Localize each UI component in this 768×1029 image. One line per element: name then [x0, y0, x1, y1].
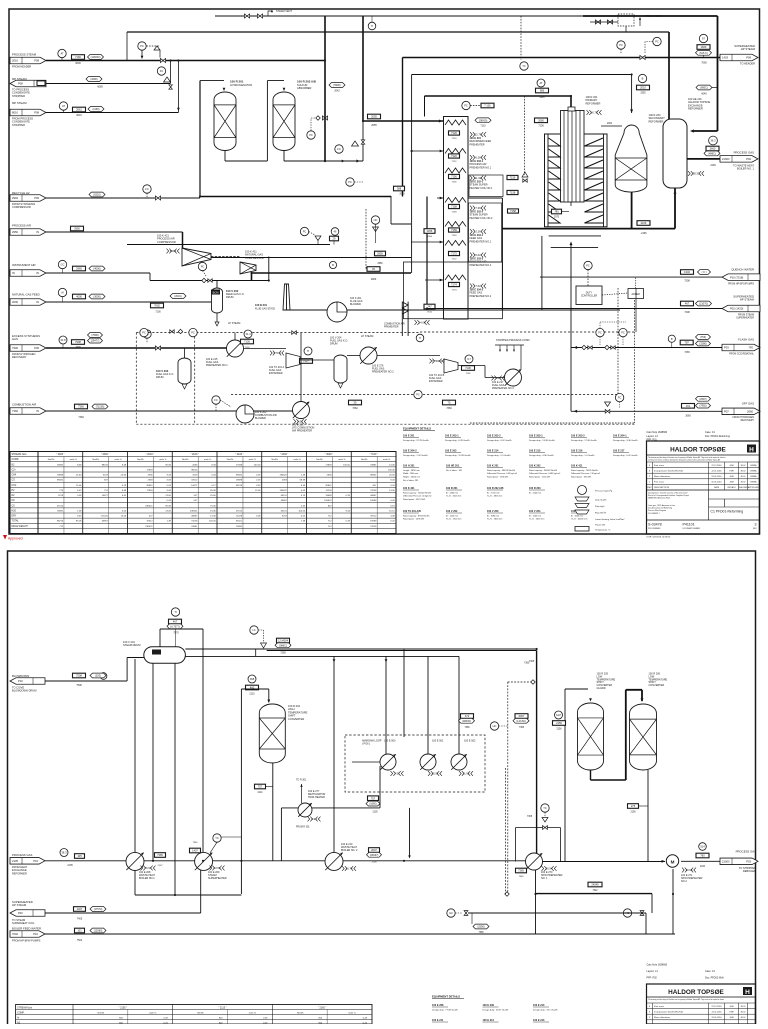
svg-text:2160: 2160	[700, 866, 706, 868]
svg-text:HP STEAM: HP STEAM	[741, 47, 756, 51]
svg-text:985: 985	[540, 89, 545, 93]
svg-text:7174: 7174	[452, 290, 458, 292]
svg-text:FLUE GAS STACK: FLUE GAS STACK	[255, 307, 276, 310]
flue duct long vertical	[570, 310, 572, 411]
svg-text:BLOWDOWN DRUM: BLOWDOWN DRUM	[12, 689, 36, 693]
svg-text:" 2160 ": " 2160 "	[190, 453, 198, 456]
shaft line compressors	[211, 256, 240, 258]
svg-text:2060: 2060	[538, 119, 544, 123]
hydrogenator feed line	[200, 80, 224, 82]
svg-text:P10: P10	[33, 932, 38, 936]
svg-text:7362: 7362	[352, 407, 358, 410]
svg-text:43867: 43867	[191, 516, 198, 518]
svg-text:2950: 2950	[12, 230, 18, 234]
BFW risers	[535, 870, 537, 934]
svg-text:74891: 74891	[57, 464, 64, 466]
feed riser x200	[199, 81, 201, 197]
svg-text:FC: FC	[214, 398, 218, 402]
svg-text:1660: 1660	[701, 45, 707, 49]
HE201 top feed thick line	[717, 16, 719, 131]
svg-text:COMP.: COMP.	[12, 459, 20, 461]
TC E209	[213, 834, 221, 842]
svg-text:37012: 37012	[370, 516, 377, 518]
svg-text:7502: 7502	[77, 939, 83, 942]
svg-text:Length : 38/50 mm: Length : 38/50 mm	[403, 469, 420, 472]
svg-text:2956: 2956	[377, 263, 383, 265]
svg-text:2166: 2166	[641, 221, 647, 225]
tee to E500	[385, 659, 388, 662]
svg-text:98216: 98216	[57, 521, 64, 523]
svg-text:16.12: 16.12	[389, 510, 395, 512]
svg-text:7136: 7136	[466, 373, 472, 375]
svg-text:14677: 14677	[191, 485, 198, 487]
svg-text:DRUM: DRUM	[156, 376, 164, 379]
master dashed signal line	[231, 394, 618, 396]
svg-text:7122: 7122	[451, 154, 457, 158]
svg-text:7570: 7570	[173, 632, 179, 635]
svg-text:100 E 203-2: 100 E 203-2	[571, 435, 585, 438]
svg-text:785: 785	[554, 210, 559, 214]
svg-text:FC: FC	[145, 187, 149, 191]
svg-text:Minor alterations: Minor alterations	[654, 475, 671, 478]
svg-text:EQUIPMENT DETAILS: EQUIPMENT DETAILS	[403, 427, 431, 431]
svg-text:100.00: 100.00	[388, 469, 395, 471]
HC stations on steam line	[447, 909, 455, 917]
svg-text:7122: 7122	[452, 161, 458, 163]
svg-text:ABSORBER: ABSORBER	[297, 86, 312, 90]
svg-text:38.3: 38.3	[61, 851, 67, 855]
svg-text:Rated power : 1936 kW: Rated power : 1936 kW	[487, 476, 508, 479]
svg-text:S-03478: S-03478	[648, 523, 662, 527]
svg-text:1407: 1407	[77, 907, 83, 911]
svg-text:HEATER COIL NO.1: HEATER COIL NO.1	[470, 187, 494, 190]
FC recycle H2	[143, 185, 151, 193]
reformer tubes	[561, 111, 585, 203]
svg-text:74891: 74891	[236, 526, 243, 528]
svg-text:7158: 7158	[452, 212, 458, 214]
svg-text:25.60: 25.60	[389, 475, 395, 477]
svg-text:100 E 208: 100 E 208	[432, 1004, 444, 1007]
instr 97 steam	[699, 34, 707, 42]
svg-text:Design duty : 22.78 Gcal/h: Design duty : 22.78 Gcal/h	[403, 439, 430, 442]
svg-text:P41101: P41101	[683, 523, 695, 527]
svg-text:PC: PC	[140, 44, 144, 48]
svg-text:37012: 37012	[57, 505, 64, 507]
steam vent assembly right	[595, 20, 600, 24]
svg-text:" 7160 ": " 7160 "	[369, 453, 377, 456]
svg-text:TOTAL: TOTAL	[12, 520, 20, 523]
svg-text:Rated capacity : 343087 Nm3: Rated capacity : 343087 Nm3/h	[529, 469, 557, 472]
process steam downleg V1	[324, 16, 326, 161]
svg-text:TRIM-HEATER: TRIM-HEATER	[308, 796, 325, 799]
radiant hatching	[549, 138, 561, 146]
svg-text:74228: 74228	[191, 521, 198, 523]
svg-text:Layout: L4: Layout: L4	[647, 970, 659, 973]
junction vertical x127	[141, 56, 144, 59]
svg-text:Desulfurization and Reforming: Desulfurization and Reforming	[648, 507, 672, 510]
svg-text:HC: HC	[449, 911, 453, 915]
svg-text:BWRA: BWRA	[751, 475, 758, 478]
svg-text:13.06: 13.06	[210, 516, 216, 518]
radiant box primary reformer	[545, 134, 608, 227]
svg-text:7002: 7002	[154, 304, 160, 308]
svg-text:INSTRUMENT AIR: INSTRUMENT AIR	[12, 263, 36, 267]
crossover thick to reformer tubes	[425, 95, 572, 97]
svg-text:TL-TL : 60000 mm: TL-TL : 60000 mm	[571, 519, 588, 521]
svg-text:Rachel of Correspondent Fertil: Rachel of Correspondent Fertilizer Compl…	[648, 494, 690, 497]
svg-text:7456: 7456	[427, 236, 433, 238]
title block page1	[647, 441, 760, 534]
svg-text:CONVERTER: CONVERTER	[288, 717, 304, 721]
svg-text:472: 472	[465, 714, 470, 718]
svg-text:CHECKED: CHECKED	[738, 487, 748, 489]
instr 514	[699, 843, 707, 851]
svg-text:2061: 2061	[76, 108, 82, 112]
svg-text:TC: TC	[543, 806, 547, 810]
svg-text:PREHEATER NO.1: PREHEATER NO.1	[470, 240, 492, 243]
svg-text:TI: TI	[419, 336, 422, 340]
R204 outlet	[272, 763, 274, 861]
svg-text:mole %: mole %	[114, 459, 121, 461]
svg-text:7160: 7160	[75, 55, 81, 59]
svg-text:6010: 6010	[76, 114, 82, 117]
svg-text:HC: HC	[493, 724, 497, 728]
svg-text:Lower Heating Value kcal/Nm³: Lower Heating Value kcal/Nm³	[595, 518, 625, 521]
svg-text:DOCUMENT NUMBER: DOCUMENT NUMBER	[683, 528, 701, 530]
R201 outlet piping	[224, 151, 226, 162]
blowdown from drum	[127, 657, 144, 659]
svg-text:2950: 2950	[74, 227, 80, 231]
svg-text:Case: C1: Case: C1	[705, 431, 716, 434]
drum steam line right	[185, 655, 459, 657]
svg-text:RECOVERY: RECOVERY	[12, 355, 27, 359]
svg-text:P06: P06	[34, 346, 39, 350]
svg-text:100 B 201: 100 B 201	[255, 303, 268, 307]
svg-text:275: 275	[631, 804, 636, 808]
svg-text:PFP: P02: PFP: P02	[647, 977, 658, 980]
hx 100 E 500	[380, 754, 396, 770]
svg-text:2007: 2007	[371, 848, 377, 852]
steam coil takeoff box 1	[469, 175, 503, 197]
svg-text:74891: 74891	[370, 464, 377, 466]
svg-text:P01: P01	[33, 859, 38, 863]
svg-text:2064: 2064	[607, 123, 613, 125]
svg-text:7120: 7120	[451, 131, 457, 135]
svg-text:(21070): (21070)	[699, 303, 708, 306]
svg-text:22.12.2016: 22.12.2016	[711, 1006, 722, 1008]
svg-text:Rated power : 2496 kW: Rated power : 2496 kW	[403, 518, 424, 521]
svg-text:NLIU: NLIU	[741, 1011, 746, 1013]
svg-text:19689: 19689	[57, 475, 64, 477]
svg-text:Nm3/h: Nm3/h	[227, 459, 234, 461]
svg-text:3219: 3219	[192, 475, 198, 477]
svg-text:P02: P02	[746, 157, 751, 161]
svg-text:NLIU: NLIU	[741, 1017, 746, 1019]
svg-text:(29477): (29477)	[91, 340, 100, 343]
instr AT mixed feed top	[537, 79, 545, 87]
svg-text:AT: AT	[60, 52, 64, 56]
svg-text:PREHEATER NO.3: PREHEATER NO.3	[492, 387, 514, 390]
svg-text:B: B	[671, 337, 673, 341]
svg-text:NLIU: NLIU	[741, 470, 746, 472]
svg-text:DRUM: DRUM	[330, 343, 338, 346]
svg-text:REV: REV	[647, 487, 652, 489]
svg-text:TC: TC	[215, 836, 219, 840]
hexagon 28000 flue	[475, 118, 491, 123]
red approved stamp	[3, 535, 7, 540]
svg-text:TL-TL : 1800 mm: TL-TL : 1800 mm	[487, 519, 503, 521]
svg-text:LC: LC	[252, 628, 255, 632]
svg-text:74228: 74228	[236, 516, 243, 518]
svg-text:-2166: -2166	[640, 232, 647, 235]
svg-text:95841: 95841	[57, 480, 64, 482]
HE-201 top feed vertical	[668, 32, 670, 119]
svg-text:FC: FC	[337, 147, 341, 151]
fuel gas package dashed boundary	[135, 333, 137, 425]
svg-text:PC: PC	[621, 331, 625, 335]
svg-text:7365: 7365	[280, 652, 286, 655]
svg-text:17949: 17949	[146, 469, 153, 471]
svg-text:13.06: 13.06	[121, 516, 127, 518]
svg-text:7159: 7159	[452, 235, 458, 237]
svg-text:7308: 7308	[684, 280, 690, 283]
svg-text:7172: 7172	[452, 259, 458, 261]
svg-text:22.12.2016: 22.12.2016	[711, 465, 722, 467]
stream PROCESS GAS outlet	[687, 158, 720, 160]
steam coil takeoff box 2	[469, 203, 502, 262]
dashed LC to valve	[508, 681, 531, 683]
svg-text:100 E 203-1: 100 E 203-1	[445, 435, 459, 438]
svg-text:(3286): (3286)	[699, 343, 706, 346]
steam line right segment	[468, 912, 646, 914]
svg-text:IN: IN	[12, 271, 15, 275]
hx 100 E 277 methanator trim heater	[281, 807, 380, 809]
svg-text:100 V 202: 100 V 202	[446, 510, 458, 513]
svg-text:(7992): (7992)	[699, 405, 706, 408]
svg-text:17949: 17949	[146, 490, 153, 492]
svg-text:6007: 6007	[519, 714, 525, 718]
svg-text:7159: 7159	[451, 228, 457, 232]
svg-text:17949: 17949	[325, 464, 332, 466]
svg-text:05.01.2016: 05.01.2016	[711, 482, 722, 484]
svg-text:Flow Nm³/h: Flow Nm³/h	[595, 512, 607, 515]
svg-text:Rated power : 1545 kW: Rated power : 1545 kW	[529, 476, 550, 479]
hexagon 5990 steam	[329, 83, 345, 88]
svg-text:STRIPPED PROCESS COND.: STRIPPED PROCESS COND.	[496, 339, 530, 342]
svg-text:7158: 7158	[451, 205, 457, 209]
combustion air coil exit duct	[401, 302, 403, 336]
svg-text:STREAM No/s: STREAM No/s	[17, 1006, 33, 1009]
svg-text:Design duty : 0.96 Gcal/h: Design duty : 0.96 Gcal/h	[529, 454, 554, 457]
svg-text:No. of tubes: 282: No. of tubes: 282	[403, 479, 419, 482]
svg-text:EQUIPMENT DETAILS: EQUIPMENT DETAILS	[432, 995, 460, 999]
svg-text:JGM: JGM	[729, 476, 734, 478]
svg-text:" 2400 ": " 2400 "	[280, 453, 288, 456]
svg-text:100 V 204: 100 V 204	[529, 510, 541, 513]
valve on steam line	[160, 58, 165, 62]
svg-text:95841: 95841	[236, 475, 243, 477]
svg-text:Design duty : 0.52 Gcal/h: Design duty : 0.52 Gcal/h	[487, 439, 512, 442]
air coil duct box	[404, 262, 503, 319]
svg-text:12 M004: 12 M004	[278, 639, 289, 643]
svg-text:7360: 7360	[446, 407, 452, 410]
svg-text:(4000): (4000)	[93, 268, 100, 271]
svg-text:P10 (7318): P10 (7318)	[730, 275, 743, 279]
svg-text:P06: P06	[34, 196, 39, 200]
svg-text:7408: 7408	[684, 311, 690, 314]
svg-text:17949: 17949	[236, 464, 243, 466]
svg-text:PROCESS AIR: PROCESS AIR	[12, 224, 31, 228]
tee to E210	[333, 659, 336, 662]
svg-text:P08: P08	[18, 82, 23, 86]
svg-text:Nm3/h: Nm3/h	[182, 459, 189, 461]
svg-text:100 R 202 A/B: 100 R 202 A/B	[297, 80, 316, 84]
svg-text:7360: 7360	[12, 409, 18, 413]
svg-text:98216: 98216	[191, 469, 198, 471]
svg-text:PREHEATER NO.1: PREHEATER NO.1	[470, 166, 492, 169]
svg-text:DATE: DATE	[714, 486, 720, 489]
svg-text:43867: 43867	[370, 495, 377, 497]
svg-text:100 E 215: 100 E 215	[529, 450, 541, 453]
flue gas stack 100 B 201	[283, 284, 290, 310]
svg-text:" 2160 ": " 2160 "	[318, 1006, 326, 1009]
svg-text:98216: 98216	[102, 464, 109, 466]
feed gas out to HE bottom	[468, 197, 502, 199]
flue gas duct	[287, 309, 328, 311]
svg-text:2636: 2636	[192, 464, 198, 466]
svg-text:DOCUMENT #: DOCUMENT #	[648, 513, 660, 515]
svg-text:P02 (1420): P02 (1420)	[730, 307, 743, 311]
svg-text:2902: 2902	[12, 196, 18, 200]
svg-text:NLIU: NLIU	[741, 1006, 746, 1008]
NG feed line to drum	[151, 303, 164, 308]
svg-text:PC: PC	[598, 331, 602, 335]
svg-text:mole %: mole %	[249, 459, 256, 461]
svg-text:P07: P07	[724, 410, 729, 414]
svg-text:194622: 194622	[324, 500, 332, 502]
svg-text:AT: AT	[62, 104, 66, 108]
svg-text:7.36: 7.36	[475, 206, 481, 210]
svg-text:B: B	[332, 263, 334, 267]
svg-text:TI: TI	[307, 349, 310, 353]
svg-text:(1160): (1160)	[92, 108, 99, 111]
svg-text:(5990): (5990)	[333, 84, 340, 87]
R204 inlet line	[241, 688, 268, 690]
svg-text:Nm3/h: Nm3/h	[98, 1012, 105, 1014]
svg-text:Differential Pressure: 40 kg/c: Differential Pressure: 40 kg/cm2	[403, 495, 432, 498]
svg-text:22.11.2016: 22.11.2016	[712, 1011, 723, 1013]
instr 368 R204 inlet	[248, 675, 256, 683]
svg-text:7126: 7126	[244, 340, 250, 344]
svg-text:43867: 43867	[102, 521, 109, 523]
svg-text:NO.2: NO.2	[681, 880, 687, 883]
svg-text:2105: 2105	[372, 812, 378, 814]
svg-text:JGM: JGM	[729, 1006, 734, 1008]
svg-text:TI: TI	[371, 24, 374, 28]
flue duct verticals	[541, 236, 543, 310]
svg-text:236321: 236321	[145, 526, 153, 528]
svg-text:100 E 501: 100 E 501	[432, 740, 444, 743]
svg-text:22.11.2016: 22.11.2016	[712, 470, 723, 472]
svg-text:31.8: 31.8	[60, 338, 66, 342]
adder dashed vertical	[634, 300, 636, 423]
svg-text:100 E 216: 100 E 216	[571, 450, 583, 453]
svg-text:757: 757	[371, 796, 376, 800]
instr 31.4 and label	[244, 330, 252, 338]
svg-text:BOILER NO. 2: BOILER NO. 2	[341, 849, 358, 852]
PC top left steam	[138, 42, 146, 50]
svg-text:7365: 7365	[193, 842, 199, 844]
svg-text:7908: 7908	[75, 347, 81, 349]
svg-text:(7596): (7596)	[91, 334, 98, 337]
svg-text:BOILER NO.1: BOILER NO.1	[139, 877, 155, 880]
svg-text:P08: P08	[34, 111, 39, 115]
svg-text:BWRA: BWRA	[751, 464, 758, 467]
svg-text:7156: 7156	[510, 176, 516, 180]
svg-text:11.32: 11.32	[475, 176, 482, 180]
svg-text:100 HE 201: 100 HE 201	[446, 465, 460, 468]
svg-text:NLIU: NLIU	[741, 476, 746, 478]
svg-text:AI: AI	[61, 291, 64, 295]
svg-text:19689: 19689	[236, 480, 243, 482]
svg-text:100 E 204-1: 100 E 204-1	[613, 435, 627, 438]
svg-text:FLASH GAS: FLASH GAS	[738, 338, 754, 342]
svg-text:ID : 3500 mm: ID : 3500 mm	[571, 515, 583, 517]
svg-text:7405: 7405	[77, 918, 83, 921]
svg-text:2055: 2055	[640, 93, 646, 95]
svg-text:(515 C): (515 C)	[699, 52, 708, 55]
svg-text:7110: 7110	[480, 125, 486, 128]
svg-text:Design duty : 17.36 Gcal/h: Design duty : 17.36 Gcal/h	[571, 439, 598, 442]
PC duty and controller	[584, 261, 592, 269]
svg-text:7365: 7365	[519, 876, 525, 878]
svg-text:HP STEAM: HP STEAM	[12, 903, 27, 907]
svg-text:P03: P03	[724, 346, 729, 350]
svg-text:RECOVERY: RECOVERY	[741, 419, 755, 422]
hexagon 690C	[696, 85, 712, 90]
svg-text:101: 101	[77, 929, 82, 933]
svg-text:95.08: 95.08	[76, 521, 82, 523]
svg-text:Pressure kg/cm²g: Pressure kg/cm²g	[595, 490, 613, 493]
R205 to R206 transfer	[590, 770, 592, 780]
R203 quench line	[601, 125, 622, 127]
svg-text:14677: 14677	[102, 495, 109, 497]
svg-text:2075: 2075	[554, 217, 560, 219]
svg-text:100 E 211: 100 E 211	[432, 1019, 444, 1022]
svg-text:BCM: BCM	[213, 290, 219, 294]
svg-text:7508: 7508	[76, 684, 82, 687]
svg-text:" 2105 ": " 2105 "	[119, 1006, 127, 1009]
drum downcomers	[134, 659, 136, 852]
svg-text:STEAM VENT: STEAM VENT	[276, 10, 292, 13]
svg-text:STRIPPER: STRIPPER	[12, 94, 25, 98]
hx 100 E 501	[420, 754, 436, 770]
svg-text:STEAM VENT: STEAM VENT	[645, 15, 661, 18]
svg-text:2383: 2383	[282, 480, 288, 482]
steam vent assembly left	[244, 14, 249, 18]
svg-text:" 3600 ": " 3600 "	[325, 453, 333, 456]
svg-text:First issue: First issue	[654, 481, 665, 484]
svg-text:43867: 43867	[281, 500, 288, 502]
svg-text:(116000): (116000)	[91, 56, 101, 59]
svg-text:Rated capacity : 87/56 Nm3/h: Rated capacity : 87/56 Nm3/h	[403, 514, 429, 517]
svg-text:(48000): (48000)	[462, 720, 471, 723]
svg-text:Design duty : 77.08 Gcal/h: Design duty : 77.08 Gcal/h	[432, 1009, 459, 1012]
svg-text:Nm3/h: Nm3/h	[361, 459, 368, 461]
svg-text:PC: PC	[142, 331, 146, 335]
svg-text:SUPERHEATER: SUPERHEATER	[736, 317, 754, 320]
svg-text:3219: 3219	[103, 475, 109, 477]
